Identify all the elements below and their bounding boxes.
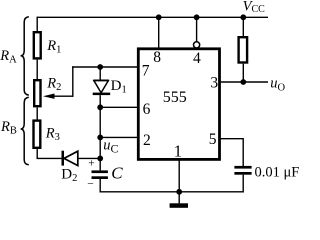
svg-text:C: C bbox=[111, 163, 123, 182]
node junction pin4 rail bbox=[194, 14, 200, 20]
svg-text:−: − bbox=[87, 179, 94, 191]
node junction pin7/D1 bbox=[97, 64, 103, 70]
wire R2-R3 bbox=[36, 107, 38, 119]
diode D2 bbox=[62, 151, 78, 166]
svg-text:R1: R1 bbox=[46, 38, 61, 56]
svg-text:+: + bbox=[88, 158, 95, 170]
svg-text:R3: R3 bbox=[45, 126, 60, 144]
svg-text:0.01 μF: 0.01 μF bbox=[255, 165, 300, 181]
wire pin 3 bbox=[220, 81, 244, 83]
wire to pin 7 bbox=[72, 66, 138, 68]
ground bbox=[170, 192, 188, 208]
wiper arrow of R2 bbox=[43, 94, 55, 99]
wire to uO bbox=[243, 81, 268, 83]
capacitor C bbox=[92, 170, 108, 179]
svg-text:2: 2 bbox=[143, 132, 151, 149]
inversion bubble pin 4 bbox=[194, 42, 200, 48]
op-amp 555 timer box U1 bbox=[138, 49, 219, 160]
wire node6-node2 bbox=[99, 107, 101, 137]
brace RA bbox=[21, 17, 29, 95]
wire R3 bottom L bbox=[37, 149, 61, 159]
resistor R3 bbox=[34, 121, 41, 148]
wire top rail VCC bbox=[37, 16, 268, 18]
svg-text:6: 6 bbox=[143, 101, 151, 118]
svg-text:7: 7 bbox=[142, 62, 150, 79]
wire node2 to C bbox=[99, 137, 101, 170]
svg-text:5: 5 bbox=[209, 131, 217, 148]
wire VCC to R bbox=[242, 17, 244, 36]
wire R1-R2 bbox=[36, 60, 38, 80]
svg-text:RA: RA bbox=[0, 48, 17, 65]
node junction pin3 bbox=[240, 79, 246, 85]
wire pin 4 bbox=[196, 17, 198, 41]
wire to pin 2 bbox=[100, 136, 138, 138]
capacitor 0.01uF bbox=[234, 166, 251, 175]
resistor R1 bbox=[34, 32, 41, 58]
wire pin 5 L bbox=[220, 139, 244, 166]
svg-text:4: 4 bbox=[193, 50, 201, 67]
svg-text:VCC: VCC bbox=[243, 0, 266, 15]
node junction ground bbox=[176, 189, 182, 195]
svg-text:8: 8 bbox=[153, 49, 161, 66]
node junction pin6 bbox=[97, 104, 103, 110]
wire pin 8 bbox=[158, 17, 160, 49]
brace RB bbox=[21, 97, 29, 165]
svg-text:uC: uC bbox=[103, 138, 118, 156]
resistor R output pull-up bbox=[239, 37, 248, 62]
wire to pin 6 bbox=[100, 106, 138, 108]
svg-text:1: 1 bbox=[174, 141, 182, 160]
svg-text:555: 555 bbox=[163, 89, 187, 106]
wire D2 to node bbox=[78, 157, 100, 159]
wire D1 top lead bbox=[99, 67, 101, 80]
diode D1 bbox=[93, 81, 111, 96]
wire C bottom L bbox=[100, 179, 243, 192]
svg-text:RB: RB bbox=[0, 119, 17, 137]
svg-text:D1: D1 bbox=[111, 78, 127, 96]
node junction VCC rail bbox=[240, 14, 246, 20]
wire pin 1 down bbox=[178, 159, 180, 191]
wire cap 0.01 bottom bbox=[242, 175, 244, 193]
wire wiper vertical bbox=[72, 66, 74, 97]
wire D1 bottom lead bbox=[99, 95, 101, 107]
node junction D2/C bbox=[97, 156, 103, 162]
wire wiper horizontal bbox=[54, 95, 74, 97]
wire R1 top lead bbox=[36, 17, 38, 32]
svg-text:D2: D2 bbox=[61, 166, 77, 184]
svg-text:uO: uO bbox=[270, 76, 285, 94]
svg-text:3: 3 bbox=[210, 74, 218, 91]
node junction pin2 bbox=[97, 135, 103, 141]
svg-text:R2: R2 bbox=[46, 76, 61, 94]
node junction pin8 rail bbox=[156, 14, 162, 20]
resistor R2 potentiometer bbox=[34, 80, 40, 106]
wire R to pin3 node bbox=[242, 64, 244, 82]
